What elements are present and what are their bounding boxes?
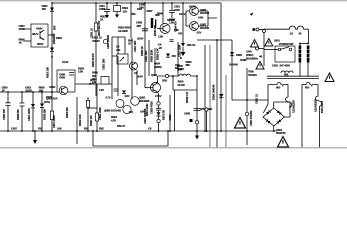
svg-text:R62: R62 (99, 127, 104, 131)
svg-text:4B: 4B (259, 55, 262, 59)
svg-text:1/2W: 1/2W (178, 67, 184, 71)
svg-text:600: 600 (305, 86, 310, 90)
mid verticals x149 x155 (149, 40, 178, 76)
svg-text:36.5V: 36.5V (37, 42, 44, 46)
resistor box on x88 (86, 101, 89, 108)
x247 wire (232, 68, 268, 145)
error amp box (57, 70, 75, 92)
transistor pair Q606 Q607 (190, 7, 199, 16)
branch D603 x33 (32, 92, 34, 131)
wire box to x52 (48, 34, 52, 36)
svg-text:1.5K: 1.5K (158, 35, 163, 39)
svg-text:0.7V: 0.7V (106, 96, 111, 100)
svg-text:Q609 2SC2482: Q609 2SC2482 (104, 109, 122, 113)
svg-text:R606 560: R606 560 (16, 109, 20, 120)
branch C605 x8 (6, 92, 11, 131)
svg-text:17.1V: 17.1V (155, 94, 162, 98)
svg-text:-0.8V: -0.8V (198, 16, 204, 20)
svg-text:C616 .0082: C616 .0082 (98, 107, 102, 120)
svg-text:R629 4.7K: R629 4.7K (156, 48, 160, 60)
node dot x52 y57 (51, 56, 53, 58)
svg-text:470: 470 (178, 32, 183, 36)
svg-text:12V: 12V (123, 10, 128, 14)
svg-text:47/50: 47/50 (19, 27, 26, 31)
svg-text:C615 1/50: C615 1/50 (102, 58, 106, 70)
box D614 x117 (116, 3, 118, 15)
svg-text:(12V): (12V) (44, 100, 50, 104)
svg-text:12.4V: 12.4V (62, 60, 69, 64)
svg-text:Q613: Q613 (151, 73, 158, 77)
svg-text:MF: MF (175, 66, 179, 70)
diode D624 (166, 54, 170, 58)
svg-text:R647: R647 (147, 9, 154, 13)
resistor box on x97 (95, 113, 98, 121)
wire left bus y92 (0, 91, 62, 93)
right block top wire with bumps (264, 26, 308, 45)
svg-text:POWER SW: POWER SW (279, 42, 294, 46)
chain x163 below (156, 92, 161, 131)
svg-text:12V: 12V (129, 110, 134, 114)
svg-text:24.1V: 24.1V (179, 12, 186, 16)
svg-text:C660 4700/50: C660 4700/50 (249, 110, 253, 126)
svg-text:L40: L40 (90, 82, 95, 86)
svg-text:C620 1/50: C620 1/50 (144, 50, 148, 62)
svg-text:50Hz/60Hz: 50Hz/60Hz (246, 57, 259, 61)
svg-text:1P: 1P (2, 88, 5, 92)
resistor R607 box (94, 23, 97, 31)
dark cap bar (151, 18, 153, 28)
warning triangle at bus (235, 118, 246, 129)
box Q600 regulator (31, 24, 48, 47)
svg-text:2SB: 2SB (162, 79, 167, 83)
svg-text:R61: R61 (131, 12, 136, 16)
AC input label (256, 47, 259, 50)
svg-text:1N4148: 1N4148 (229, 63, 238, 67)
wire y40 to x232 (197, 40, 232, 100)
lower right winding (302, 83, 318, 87)
svg-text:.033: .033 (136, 24, 141, 28)
diode D602 (50, 8, 54, 12)
svg-text:25.4V: 25.4V (137, 75, 144, 79)
cap C611 x107 (104, 3, 110, 15)
svg-text:600: 600 (276, 86, 281, 90)
branch R606 x22 (20, 92, 25, 131)
svg-text:3.15A/125V: 3.15A/125V (292, 100, 296, 113)
svg-text:2SC2026: 2SC2026 (139, 99, 150, 103)
svg-text:100: 100 (116, 48, 121, 52)
transistor cluster (116, 100, 124, 108)
svg-text:45V: 45V (172, 54, 177, 58)
choke windings L601 (299, 46, 302, 63)
svg-text:2SA678: 2SA678 (200, 26, 210, 30)
svg-text:B: B (180, 56, 182, 60)
connector x207 (205, 108, 208, 111)
svg-text:47/25: 47/25 (99, 7, 106, 11)
long verticals (204, 45, 206, 131)
bridge top wire (274, 102, 290, 108)
lower left winding (268, 83, 288, 87)
svg-text:50V: 50V (53, 25, 57, 30)
svg-text:F601 125V: F601 125V (320, 101, 324, 113)
svg-text:R628 220K: R628 220K (150, 49, 154, 62)
warning triangle right (325, 73, 334, 82)
wire into box upper (23, 28, 31, 30)
filter core lines (267, 76, 319, 78)
warning triangle below bridge (278, 137, 289, 148)
svg-text:24.3V: 24.3V (189, 5, 196, 9)
wire x145 (144, 3, 146, 88)
lower loop box (93, 131, 168, 146)
fuse F601 (286, 85, 292, 118)
bottom bus extra dots (51, 130, 53, 132)
svg-text:C607: C607 (11, 127, 18, 131)
wire x131 (130, 3, 132, 38)
node dot x52 y92 (51, 91, 53, 93)
svg-text:1/50: 1/50 (139, 6, 144, 10)
D651 on x232 (230, 52, 234, 56)
wire x163 top (162, 3, 164, 24)
power switch S601 (275, 46, 295, 62)
upper winding bumps (281, 71, 293, 73)
svg-text:R61 1K: R61 1K (187, 43, 195, 47)
svg-text:680: 680 (186, 63, 191, 67)
svg-text:1.5V: 1.5V (99, 88, 104, 92)
svg-text:-12V: -12V (196, 31, 201, 35)
svg-text:R640 30K: R640 30K (153, 25, 157, 36)
svg-text:1K: 1K (19, 41, 22, 45)
warning triangle 1 (251, 40, 259, 48)
svg-text:38.7V: 38.7V (32, 32, 39, 36)
svg-text:R608 22K: R608 22K (43, 109, 47, 120)
svg-text:2.8V: 2.8V (125, 94, 130, 98)
speaker connector x197 (194, 90, 201, 121)
svg-text:R605 39 1W: R605 39 1W (91, 53, 95, 67)
svg-text:C628: C628 (184, 112, 191, 116)
svg-text:(D625): (D625) (154, 65, 162, 69)
svg-text:R649 0.47: R649 0.47 (185, 91, 189, 103)
svg-text:3.9 1/2W: 3.9 1/2W (118, 29, 128, 33)
ground arrow bottom left (34, 131, 36, 140)
svg-text:R624 330: R624 330 (65, 107, 69, 118)
svg-text:4.7K: 4.7K (111, 118, 116, 122)
transistor Q611 (130, 62, 138, 70)
wire top bus (52, 2, 221, 4)
wire x96 (95, 3, 97, 96)
svg-text:D651: D651 (236, 53, 243, 57)
mid cluster verticals (112, 37, 132, 62)
bridge rectifier D601 (263, 108, 284, 126)
svg-text:R612: R612 (56, 36, 63, 40)
svg-text:C655 .01: C655 .01 (255, 94, 259, 104)
branch D604 x42 (41, 92, 43, 131)
svg-text:C614 .0033: C614 .0033 (27, 108, 31, 121)
wire y84 (75, 83, 112, 85)
svg-text:R613 10K: R613 10K (46, 67, 50, 78)
fuse F602 (316, 85, 322, 148)
svg-text:3.15A/125V: 3.15A/125V (313, 99, 317, 112)
svg-text:C610 1/50: C610 1/50 (133, 40, 137, 52)
warning triangle 2 (265, 39, 273, 47)
top border strip (0, 0, 347, 1)
svg-text:C601: C601 (272, 64, 279, 68)
svg-text:R626 1K: R626 1K (140, 46, 144, 56)
node dot x52 y35 (51, 34, 53, 36)
svg-text:22 1W: 22 1W (178, 83, 186, 87)
optocoupler PC601 (117, 54, 128, 64)
connector plug (253, 28, 256, 31)
svg-text:1.5K: 1.5K (169, 21, 174, 25)
svg-text:2.2K: 2.2K (78, 70, 83, 74)
wire into box lower (23, 40, 31, 42)
diode D605 on x52 (50, 48, 54, 52)
svg-text:.01/25: .01/25 (25, 88, 32, 92)
wires below error amp (76, 97, 78, 144)
svg-text:R671 5B: R671 5B (162, 110, 166, 120)
svg-text:C623 47/16: C623 47/16 (150, 101, 154, 114)
svg-text:1K: 1K (100, 18, 103, 22)
wire bottom bus y131 (0, 130, 277, 132)
bridge right wire (284, 116, 290, 118)
svg-text:47/16V: 47/16V (92, 39, 100, 43)
L/R parallel block (158, 75, 179, 77)
svg-text:47/50: 47/50 (59, 76, 66, 80)
short verticals near box (170, 90, 175, 131)
svg-text:10K: 10K (57, 127, 62, 131)
svg-text:D616 1N4148: D616 1N4148 (212, 84, 216, 100)
transistor Q603 (59, 86, 68, 95)
bottom border line (0, 147, 347, 148)
svg-text:C617 10/50: C617 10/50 (52, 115, 56, 128)
svg-text:15V: 15V (42, 7, 47, 11)
svg-text:44.8V: 44.8V (36, 27, 43, 31)
wire left vertical x52 (51, 3, 53, 131)
svg-text:TRANS: TRANS (248, 73, 257, 77)
transistor Q605 (160, 24, 170, 34)
svg-text:R619 5.6K: R619 5.6K (78, 114, 82, 126)
diode on x221 (219, 94, 224, 98)
svg-text:R62 47: R62 47 (117, 124, 125, 128)
transistor Q600 (40, 30, 44, 40)
bridge bottom stub (273, 126, 275, 131)
svg-text:25.5V: 25.5V (137, 37, 144, 41)
warning triangle 3 (256, 62, 264, 70)
svg-text:R620 100: R620 100 (89, 115, 93, 126)
cap ticks (170, 40, 174, 42)
wire x172 top (169, 3, 175, 18)
svg-text:608: 608 (284, 73, 289, 77)
small cap circle (103, 39, 107, 43)
svg-text:16.9V: 16.9V (49, 85, 56, 89)
svg-text:2KBP45: 2KBP45 (276, 131, 286, 135)
wire x183 w/ diode+gnd (182, 3, 184, 52)
svg-text:C605 47P: C605 47P (2, 109, 6, 120)
resistor R614 box on x52 (50, 111, 53, 120)
svg-text:C608 100/35: C608 100/35 (106, 35, 110, 49)
Q601 chopper (151, 83, 161, 93)
svg-text:30K: 30K (155, 13, 160, 17)
svg-text:.047 400V: .047 400V (279, 64, 290, 68)
svg-text:R611 100R: R611 100R (145, 104, 149, 116)
